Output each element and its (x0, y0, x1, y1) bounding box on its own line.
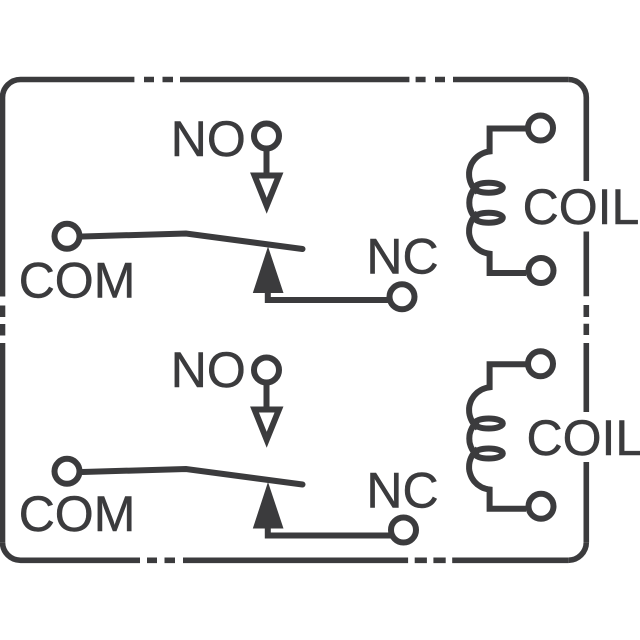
svg-text:NO: NO (171, 342, 246, 398)
NC1 contact arrow (filled) (253, 247, 284, 294)
svg-text:NC: NC (366, 229, 438, 285)
terminal coil2 bottom (529, 494, 554, 519)
terminal coil1 top (528, 116, 553, 141)
wire NC2 (268, 526, 394, 536)
NO1 stem wire (264, 149, 270, 176)
terminal NO2 (254, 358, 279, 383)
terminal NO1 (254, 124, 279, 149)
coil L2 (469, 364, 526, 509)
armature wire pole 2 (83, 469, 303, 485)
coil L1 (469, 129, 526, 274)
terminal coil1 bottom (529, 258, 554, 283)
armature wire pole 1 (83, 234, 303, 250)
NO2 stem wire (264, 383, 270, 410)
NC2 contact arrow (filled) (253, 482, 284, 529)
terminal NC2 (391, 518, 416, 543)
svg-text:COIL: COIL (527, 410, 640, 466)
svg-text:NC: NC (366, 463, 438, 519)
terminal coil2 top (528, 351, 553, 376)
terminal COM2 (55, 459, 80, 484)
terminal COM1 (55, 224, 80, 249)
NO2 contact arrow (open) (255, 410, 280, 440)
svg-text:NO: NO (171, 111, 246, 167)
relay case outline (phantom line) (3, 80, 587, 561)
svg-text:COM: COM (19, 253, 136, 309)
svg-text:COM: COM (19, 486, 136, 542)
wire NC1 (268, 290, 394, 300)
terminal NC1 (390, 284, 415, 309)
svg-text:COIL: COIL (523, 179, 640, 235)
NO1 contact arrow (open) (255, 176, 280, 206)
